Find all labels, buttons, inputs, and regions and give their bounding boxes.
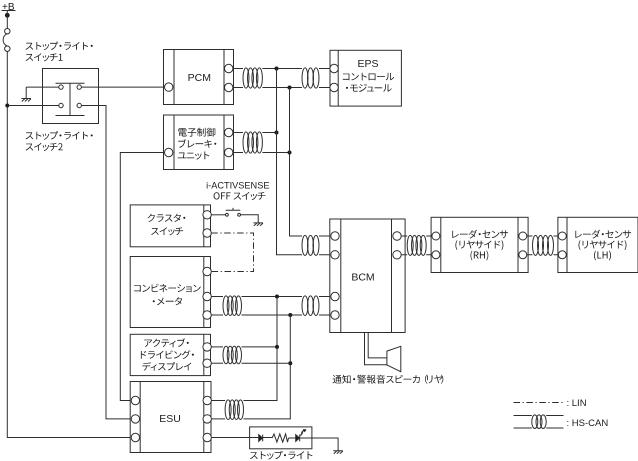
ground G3 at stop light — [333, 451, 343, 454]
junction brake CAN-L — [288, 151, 292, 155]
label display line1 — [144, 338, 189, 347]
wire twisted pair to RH pins — [426, 236, 432, 255]
label radar RH line1 — [452, 230, 508, 239]
label radar RH line2 — [455, 240, 503, 250]
wire CAN bus 4 down to ESU — [244, 315, 291, 419]
HS-CAN twisted pair radar LH — [533, 235, 554, 255]
LIN wire cluster switch to combination meter — [211, 233, 253, 272]
switch actuator bar — [56, 83, 85, 115]
wire CAN bus 2 down to BCM — [290, 88, 303, 237]
wire brake unit left pin to ESU pin L1 — [120, 153, 164, 401]
svg-text:+B: +B — [2, 2, 15, 13]
ECU radar sensor RH — [431, 217, 528, 272]
HS-CAN twisted pair PCM — [243, 68, 262, 88]
wire +B rail down left side — [7, 51, 131, 437]
ECU BCM — [330, 219, 405, 333]
wire OFF switch to ground — [241, 215, 259, 223]
wire +B terminal to fuse — [6, 11, 8, 29]
legend LIN line sample — [514, 402, 563, 404]
ECU ESU — [130, 382, 211, 453]
wire brake CAN-H stub — [233, 132, 243, 134]
HS-CAN twisted pair meter — [223, 296, 242, 316]
wire PCM CAN-L stub — [233, 87, 243, 89]
legend HS-CAN twisted pair — [532, 415, 546, 429]
ECU combination meter — [130, 257, 211, 328]
wire stop light to ground — [300, 438, 338, 451]
wire ESU CAN-H stub — [211, 400, 225, 402]
diode D1 — [259, 435, 263, 442]
svg-text:i-ACTIVSENSE: i-ACTIVSENSE — [206, 181, 269, 191]
label combination meter line1 — [134, 284, 201, 292]
ECU active driving display — [130, 334, 211, 375]
HS-CAN twisted pair BCM upper — [302, 235, 319, 255]
ground G1 at stop light switch 1 — [21, 99, 31, 102]
wire BCM to speaker 1 — [365, 333, 387, 365]
label speaker — [333, 375, 444, 384]
junction +B rail to stop light switch 2 — [5, 104, 9, 108]
wire display CAN-L to bus — [242, 362, 291, 364]
ECU cluster switch — [130, 205, 211, 247]
wire switch 2 to ESU pin L2 — [81, 106, 131, 419]
wire twisted pair to EPS pins — [319, 69, 330, 88]
power symbol +B terminal bar — [2, 10, 16, 12]
label brake unit line1 — [178, 128, 215, 137]
svg-text:EPS: EPS — [357, 58, 378, 70]
ECU PCM — [164, 50, 234, 105]
wire ESU CAN-L stub — [211, 418, 225, 420]
wire cluster switch to OFF switch — [211, 214, 225, 216]
wire RH to LH stub — [527, 236, 533, 255]
ECU EPS control module — [330, 50, 402, 106]
switch i-ACTIVSENSE OFF actuator — [226, 208, 241, 210]
wire CAN bus 1 down to BCM — [277, 69, 303, 255]
wire meter CAN-L stub — [211, 314, 223, 316]
stop light switch housing — [43, 69, 99, 124]
svg-text:: HS-CAN: : HS-CAN — [567, 418, 609, 429]
wire +B to switch 2 — [9, 105, 59, 107]
HS-CAN twisted pair brake unit — [243, 132, 262, 153]
svg-text:ESU: ESU — [159, 413, 181, 425]
label radar RH line3 — [471, 251, 489, 261]
wire brake CAN-L to bus — [262, 152, 289, 154]
label stop light switch 1 line2 — [26, 53, 63, 61]
junction CAN-H node A — [275, 67, 279, 71]
label stop light switch 1 line1 — [26, 42, 93, 51]
label stop light — [250, 451, 313, 460]
wire CAN-L to EPS — [262, 87, 302, 89]
wire display CAN-H to bus — [242, 346, 278, 348]
wire twisted pair to LH pins — [554, 236, 559, 255]
wire ground to switch 1 — [26, 87, 59, 98]
resistor R1 — [272, 434, 288, 442]
label combination meter line2 — [153, 297, 182, 305]
LED D2 stop light — [296, 435, 300, 442]
wire meter CAN-L to BCM — [242, 314, 303, 316]
svg-text:: LIN: : LIN — [567, 398, 587, 409]
wire PCM CAN-H stub — [233, 68, 243, 70]
wire ESU to stop light — [211, 437, 272, 439]
svg-text:BCM: BCM — [351, 272, 374, 284]
wire twisted pair to BCM pins L1 L2 — [319, 236, 331, 255]
HS-CAN twisted pair BCM lower — [302, 296, 319, 316]
label brake unit line2 — [178, 139, 216, 148]
switch contacts stop light switch 2 — [59, 103, 82, 107]
label OFF switch — [214, 192, 266, 200]
label radar LH line3 — [594, 251, 611, 261]
wire CAN-H to EPS — [262, 68, 302, 70]
speaker horn rear warning — [387, 346, 401, 371]
stop light lamp box — [250, 427, 312, 449]
switch i-ACTIVSENSE OFF contacts — [226, 213, 241, 216]
HS-CAN twisted pair EPS — [302, 68, 319, 88]
ground G2 at OFF switch — [253, 223, 263, 226]
wire twisted pair to BCM pins L3 L4 — [319, 297, 331, 316]
label cluster switch line2 — [151, 227, 183, 235]
ECU brake unit — [164, 115, 234, 170]
label brake unit line3 — [178, 152, 210, 160]
wire brake CAN-H to bus — [262, 132, 276, 134]
svg-text:PCM: PCM — [188, 72, 211, 84]
junction meter CAN-H node C — [275, 295, 279, 299]
wire BCM to RH stub — [401, 236, 407, 255]
label EPS line2 — [343, 73, 394, 81]
wire display CAN-H stub — [211, 346, 223, 348]
wire CAN bus 3 down to ESU — [244, 297, 278, 401]
junction CAN-L node B — [288, 86, 292, 90]
junction meter CAN-L node D — [288, 313, 292, 317]
junction display CAN-L — [288, 361, 292, 365]
junction display CAN-H — [275, 345, 279, 349]
label display line3 — [142, 362, 191, 371]
HS-CAN twisted pair ESU — [225, 400, 243, 420]
fuse F1 — [3, 29, 10, 52]
switch contacts stop light switch 1 — [59, 85, 82, 89]
label EPS line3 — [346, 84, 392, 92]
wire display CAN-L stub — [211, 362, 223, 364]
wire switch 1 to PCM — [81, 86, 164, 88]
HS-CAN twisted pair display — [223, 346, 242, 364]
label stop light switch 2 line2 — [26, 143, 63, 151]
label stop light switch 2 line1 — [26, 131, 93, 140]
label display line2 — [141, 350, 194, 359]
wire brake CAN-L stub — [233, 152, 243, 154]
wire BCM to speaker 2 — [368, 333, 387, 358]
HS-CAN twisted pair BCM radar — [407, 235, 426, 255]
ECU radar sensor LH — [558, 217, 638, 272]
wire meter CAN-H to BCM — [242, 296, 303, 298]
label cluster switch line1 — [148, 214, 186, 222]
legend HS-CAN wires — [514, 416, 564, 429]
wire meter CAN-H stub — [211, 296, 223, 298]
wire resistor to LED — [289, 437, 296, 439]
label radar LH line1 — [575, 230, 631, 239]
junction brake CAN-H — [275, 131, 279, 135]
label radar LH line2 — [579, 240, 627, 250]
junction +B terminal — [5, 13, 10, 18]
